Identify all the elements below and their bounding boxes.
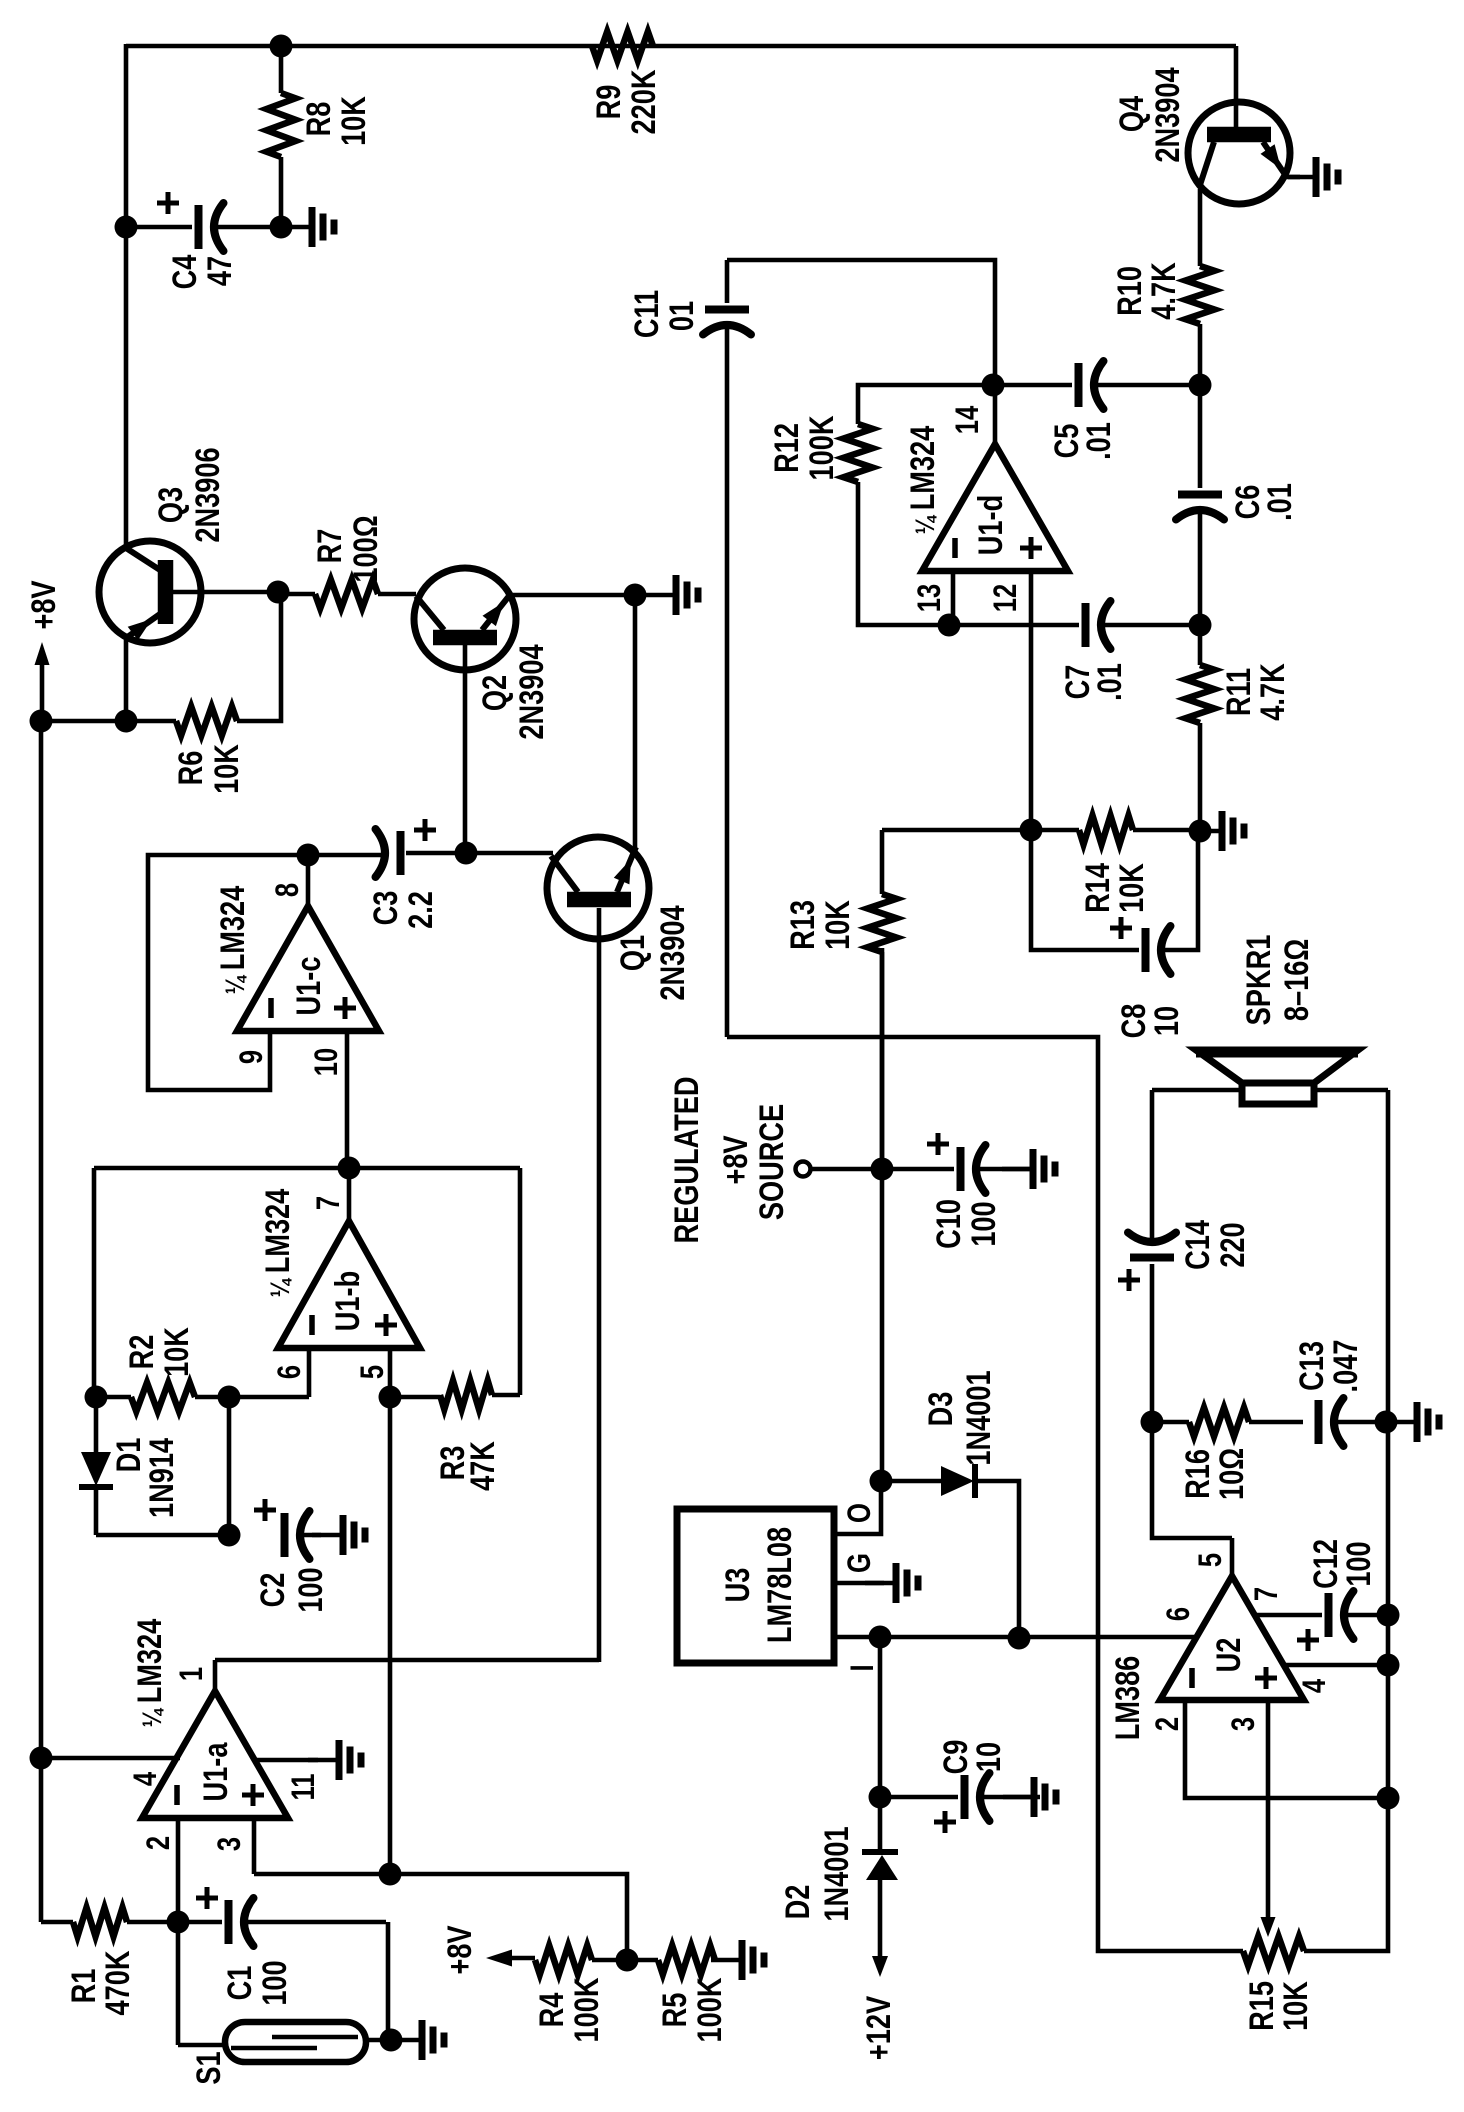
junction +8V emitter node	[115, 710, 138, 733]
plus sign C3	[414, 828, 436, 833]
wire R7 right lead to Q2	[378, 592, 416, 597]
wire Q2 emitter to ground junction	[509, 593, 635, 598]
junction pin 2 rail node	[1377, 1787, 1400, 1810]
svg-text:3: 3	[212, 1837, 247, 1851]
svg-text:Q2: Q2	[475, 675, 514, 711]
capacitor C9	[880, 1795, 958, 1800]
plus sign C9	[934, 1820, 956, 1825]
junction pin 13 node	[938, 614, 961, 637]
svg-text:Q3: Q3	[151, 487, 190, 523]
pin 11 stub and ground	[255, 1758, 318, 1763]
junction C2 node	[218, 1524, 241, 1547]
junction Q3 base node	[267, 581, 290, 604]
op-amp U2 LM386	[1160, 1576, 1304, 1700]
wire U1-b output rail	[94, 1166, 520, 1171]
svg-text:2N3904: 2N3904	[512, 644, 551, 739]
ground after R5	[711, 1958, 741, 1963]
wire O node up the +8V regulated rail	[880, 948, 885, 1481]
pin 4 stub U2	[1284, 1663, 1388, 1668]
junction C12 rail node	[1377, 1604, 1400, 1627]
ground at C13	[1386, 1420, 1416, 1425]
svg-text:4: 4	[1297, 1679, 1332, 1693]
svg-text:D2: D2	[778, 1885, 817, 1920]
wire D1 bottom to C2 node	[96, 1533, 229, 1538]
svg-text:+12V: +12V	[859, 1995, 898, 2060]
svg-text:7: 7	[1249, 1587, 1284, 1601]
svg-text:R8: R8	[299, 102, 338, 137]
svg-text:8–16Ω: 8–16Ω	[1277, 939, 1316, 1021]
plus sign C4	[157, 201, 179, 206]
junction R2 left node	[85, 1386, 108, 1409]
plus sign C10	[927, 1142, 949, 1147]
svg-text:10: 10	[1147, 1006, 1186, 1036]
svg-text:10K: 10K	[818, 900, 857, 950]
wire R2 leads	[96, 1395, 131, 1400]
svg-text:100Ω: 100Ω	[346, 515, 385, 582]
resistor R13	[880, 830, 885, 894]
wire C3 left to U1-c output	[308, 853, 382, 858]
svg-text:C3: C3	[366, 891, 405, 926]
op-amp U1-d quarter LM324	[922, 444, 1068, 571]
resistor R4	[535, 1946, 592, 1975]
junction C5 R10 node	[1189, 374, 1212, 397]
ground at R14 node	[1191, 829, 1221, 834]
svg-text:Q1: Q1	[613, 935, 652, 971]
svg-text:LM386: LM386	[1108, 1656, 1147, 1741]
wire U1-a output to Q1 base drop	[215, 1658, 599, 1663]
junction U1-b output node	[338, 1157, 361, 1180]
svg-text:R15: R15	[1242, 1981, 1281, 2031]
junction R2 right node	[218, 1386, 241, 1409]
resistor R1	[73, 1908, 127, 1937]
svg-text:+8V: +8V	[440, 1925, 479, 1975]
plus sign C8	[1110, 926, 1132, 931]
resistor R10	[1198, 189, 1203, 266]
wire +8V vertical with arrow	[40, 664, 45, 721]
junction D2 C9 node	[869, 1786, 892, 1809]
transistor Q2 2N3904	[414, 568, 516, 670]
pin 3 stub	[252, 1818, 257, 1874]
svg-text:10K: 10K	[334, 96, 373, 146]
wire speaker left lead	[1152, 1088, 1242, 1093]
speaker SPKR1	[1196, 1050, 1358, 1083]
svg-text:2N3904: 2N3904	[653, 905, 692, 1000]
svg-text:R12: R12	[767, 423, 806, 473]
wire Q3 emitter down to +8V node	[124, 638, 129, 721]
wire input node down to D2 C9 node	[878, 1637, 883, 1797]
svg-text:2.2: 2.2	[401, 891, 440, 929]
wire Q4 emitter to ground	[1288, 175, 1300, 180]
svg-text:U1-b: U1-b	[328, 1271, 367, 1331]
svg-text:U2: U2	[1209, 1638, 1248, 1673]
wire C11 bottom rail to R15	[727, 1037, 1243, 1951]
svg-text:C11: C11	[627, 290, 666, 338]
svg-text:100K: 100K	[690, 1978, 729, 2043]
svg-text:10K: 10K	[207, 744, 246, 794]
wire C11 top to pin14 node	[727, 260, 995, 385]
svg-text:100: 100	[1339, 1541, 1378, 1586]
svg-text:R10: R10	[1110, 266, 1149, 316]
capacitor C2	[281, 1513, 289, 1557]
pin 2 stub U2	[1185, 1700, 1388, 1798]
pin 3 stub U2 wiper arrow	[1266, 1700, 1271, 1917]
junction Q2 emitter node	[624, 584, 647, 607]
junction S1 ground node	[380, 2029, 403, 2052]
svg-text:R14: R14	[1078, 863, 1117, 913]
svg-text:10: 10	[309, 1048, 344, 1076]
junction R4 R5 node	[616, 1949, 639, 1972]
svg-text:O: O	[842, 1503, 877, 1523]
ground at C2	[312, 1533, 342, 1538]
wire Q1 base down to U1-a output wire	[597, 908, 602, 1662]
pin 13 stub	[951, 571, 956, 625]
wire Q1 collector to Q2 base node	[466, 851, 553, 856]
junction C13 ground rail node	[1375, 1411, 1398, 1434]
junction pin 4 node on +8V rail	[30, 1747, 53, 1770]
pin 7 stub U2	[1254, 1613, 1322, 1618]
wire Q2 emitter node down to Q1 emitter	[633, 595, 638, 849]
pin 5 stub	[388, 1348, 393, 1397]
svg-text:U1-a: U1-a	[196, 1742, 235, 1802]
capacitor C7	[1082, 603, 1090, 647]
junction +8V rail node	[30, 710, 53, 733]
svg-text:1: 1	[174, 1667, 209, 1681]
resistor R8	[267, 93, 296, 157]
svg-text:R2: R2	[122, 1335, 161, 1370]
svg-text:LM78L08: LM78L08	[760, 1527, 799, 1643]
pin 14 stub	[993, 385, 998, 444]
ground at Q4 emitter	[1285, 175, 1315, 180]
svg-text:R1: R1	[64, 1969, 103, 2004]
svg-text:7: 7	[311, 1196, 346, 1210]
junction D3 anode node	[870, 1470, 893, 1493]
op-amp U1-a quarter LM324	[142, 1691, 288, 1818]
svg-text:14: 14	[950, 406, 985, 434]
svg-text:220: 220	[1213, 1222, 1252, 1267]
capacitor C4	[126, 225, 192, 230]
svg-text:13: 13	[912, 584, 947, 612]
wire R6 right to Q3 base junction	[237, 592, 281, 721]
svg-text:10Ω: 10Ω	[1212, 1448, 1251, 1500]
svg-text:Q4: Q4	[1112, 96, 1151, 132]
svg-text:2N3904: 2N3904	[1148, 67, 1187, 162]
svg-text:R13: R13	[783, 900, 822, 950]
plus sign C2	[254, 1508, 276, 1513]
svg-text:.047: .047	[1326, 1340, 1365, 1393]
svg-text:6: 6	[1161, 1607, 1196, 1621]
wire R7 left lead	[278, 592, 315, 597]
svg-text:R9: R9	[589, 85, 628, 120]
terminal regulated 8V source	[796, 1162, 811, 1177]
svg-text:U3: U3	[718, 1568, 757, 1603]
wire pin 3 rail to R4 node	[254, 1874, 627, 1960]
resistor R11	[1198, 625, 1203, 665]
svg-text:2: 2	[1150, 1717, 1185, 1731]
svg-text:01: 01	[662, 301, 701, 331]
transistor Q4 2N3904	[1188, 102, 1290, 204]
svg-text:U1-c: U1-c	[289, 957, 328, 1016]
svg-text:C13: C13	[1292, 1341, 1331, 1391]
wire R3 right leg down	[518, 1168, 523, 1395]
svg-text:G: G	[842, 1553, 877, 1573]
plus sign C14	[1118, 1278, 1140, 1283]
svg-text:R11: R11	[1219, 668, 1258, 716]
resistor R6	[176, 707, 237, 736]
op-amp U1-c quarter LM324	[237, 906, 379, 1031]
op-amp U1-b quarter LM324	[278, 1221, 420, 1348]
junction U3 input node	[869, 1626, 892, 1649]
pin 12 stub	[1029, 571, 1034, 830]
resistor R9	[592, 32, 653, 61]
resistor R2	[131, 1383, 195, 1412]
potentiometer R15	[1243, 1937, 1304, 1966]
svg-text:4.7K: 4.7K	[1253, 663, 1292, 720]
svg-text:.01: .01	[1260, 483, 1299, 521]
svg-text:9: 9	[234, 1050, 269, 1064]
wire U1-c feedback loop	[148, 855, 308, 1090]
capacitor C3	[397, 831, 405, 875]
capacitor C10	[882, 1167, 954, 1172]
junction pin 5 node	[379, 1386, 402, 1409]
wire right rail speaker to R15	[1304, 1090, 1388, 1951]
wire top rail corner down to Q4 base	[1234, 46, 1239, 128]
svg-text:4.7K: 4.7K	[1144, 262, 1183, 319]
wire +8V rail horizontal	[41, 719, 126, 724]
svg-text:6: 6	[272, 1365, 307, 1379]
resistor R16	[1189, 1408, 1249, 1437]
svg-text:1N4001: 1N4001	[959, 1370, 998, 1465]
junction U1-d output node	[982, 374, 1005, 397]
svg-text:100K: 100K	[567, 1978, 606, 2043]
pin O stub	[834, 1481, 881, 1534]
junction pin 4 rail node	[1377, 1654, 1400, 1677]
wire R16 left lead	[1152, 1420, 1189, 1425]
svg-text:+8V: +8V	[716, 1135, 755, 1185]
wire U3 input rail to U2 pin6	[880, 1635, 1196, 1640]
svg-text:+8V: +8V	[24, 580, 63, 630]
resistor R3	[440, 1381, 492, 1410]
wire +8V long rail down left edge	[39, 721, 44, 1922]
junction D3 cathode to input rail	[1008, 1627, 1031, 1650]
regulator U3 LM78L08	[677, 1509, 834, 1663]
svg-text:47: 47	[200, 256, 239, 286]
junction Q2 base C3 node	[455, 842, 478, 865]
svg-text:10K: 10K	[1112, 863, 1151, 913]
wire speaker right lead	[1314, 1088, 1388, 1093]
junction C4 right	[270, 216, 293, 239]
ground at C10	[1002, 1167, 1032, 1172]
pin 2 stub	[176, 1818, 181, 1922]
wire pin5 node right to R3	[390, 1395, 440, 1400]
ground at C4	[281, 225, 311, 230]
wire Q3 base to junction	[172, 590, 278, 595]
svg-text:R4: R4	[532, 1993, 571, 2028]
svg-text:R7: R7	[310, 529, 349, 564]
diode D2 1N4001	[878, 1797, 883, 1852]
pin 1 output stub	[213, 1660, 218, 1691]
capacitor C5	[993, 383, 1072, 388]
svg-text:D3: D3	[921, 1392, 960, 1427]
wire R1 right to pin2 node	[127, 1920, 178, 1925]
resistor R7	[315, 580, 378, 609]
svg-text:2N3906: 2N3906	[188, 447, 227, 542]
junction C4 left on rail	[115, 216, 138, 239]
pin I stub	[834, 1635, 880, 1640]
capacitor C14	[1130, 1254, 1174, 1262]
svg-text:5: 5	[1193, 1553, 1228, 1567]
svg-text:C10: C10	[929, 1199, 968, 1249]
ground at Q2 emitter	[645, 593, 675, 598]
switch S1 sensor pill	[225, 2022, 366, 2062]
plus sign C12	[1297, 1638, 1319, 1643]
svg-text:10: 10	[969, 1742, 1008, 1772]
ground at S1	[391, 2038, 421, 2043]
junction R14 ground node	[1189, 820, 1212, 843]
svg-text:SPKR1: SPKR1	[1239, 935, 1278, 1026]
svg-text:220K: 220K	[624, 70, 663, 135]
svg-text:.01: .01	[1079, 422, 1118, 460]
wire R2right node down to C2 node	[227, 1397, 232, 1535]
junction C7 rail node	[1189, 614, 1212, 637]
svg-text:5: 5	[355, 1365, 390, 1379]
wire speaker left down to C14	[1150, 1090, 1155, 1238]
pin 5 stub U2 output	[1230, 1538, 1235, 1576]
wire top rail from corner to Q4 base corner	[126, 44, 1236, 49]
pin G stub and ground	[834, 1581, 884, 1586]
wire left rail down to Q3	[124, 44, 129, 545]
capacitor C11	[725, 260, 730, 303]
wire C1 right down to S1 ground node	[386, 1922, 391, 2040]
transistor Q1 2N3904	[547, 837, 649, 939]
svg-text:REGULATED: REGULATED	[667, 1076, 706, 1243]
svg-text:S1: S1	[189, 2051, 228, 2084]
svg-text:100K: 100K	[802, 416, 841, 481]
svg-text:4: 4	[128, 1772, 163, 1786]
junction R1 C1 pin2 node	[167, 1911, 190, 1934]
svg-text:100: 100	[255, 1960, 294, 2005]
transistor Q3 2N3906	[99, 541, 201, 643]
svg-text:470K: 470K	[98, 1951, 137, 2016]
junction C14 R16 pin5 node	[1141, 1411, 1164, 1434]
svg-text:100: 100	[291, 1567, 330, 1612]
pin 10 stub	[345, 1031, 350, 1168]
svg-text:I: I	[845, 1664, 880, 1671]
svg-text:R6: R6	[171, 751, 210, 786]
wire R2 right to pin 6	[229, 1395, 309, 1400]
svg-text:2: 2	[141, 1836, 176, 1850]
svg-text:SOURCE: SOURCE	[752, 1104, 791, 1220]
wire R3 right lead	[492, 1393, 520, 1398]
svg-text:47K: 47K	[463, 1441, 502, 1491]
junction pin3 and U1-b pin5 drop	[379, 1863, 402, 1886]
wire S1 left up to pin2 node	[176, 1922, 181, 2045]
pin 8 stub U1-c output	[306, 855, 311, 906]
svg-text:C4: C4	[165, 255, 204, 290]
resistor R12 feedback	[858, 385, 995, 424]
plus sign C1	[196, 1896, 218, 1901]
wire +8V rail corner to R1	[41, 1920, 73, 1925]
svg-text:12: 12	[988, 584, 1023, 612]
svg-text:1N914: 1N914	[142, 1438, 181, 1518]
pin 6 stub	[307, 1348, 312, 1397]
svg-text:1N4001: 1N4001	[817, 1826, 856, 1921]
junction U1-c output node	[297, 844, 320, 867]
resistor R14	[1079, 816, 1133, 845]
svg-text:R16: R16	[1178, 1449, 1217, 1499]
wire +8V arrow to R4	[505, 1956, 535, 1961]
svg-text:C14: C14	[1178, 1220, 1217, 1270]
wire R4 to junction	[592, 1958, 658, 1963]
wire Q2 base down	[463, 645, 468, 853]
capacitor C6 on rail	[1198, 385, 1203, 488]
diode D1 1N914	[94, 1397, 99, 1452]
svg-text:3: 3	[1226, 1717, 1261, 1731]
wire pin12 node to R13 R14 rail	[882, 828, 1079, 833]
pin 4 supply wire	[41, 1756, 180, 1761]
wire pin5 node long drop to U1-a pin3	[388, 1397, 393, 1874]
svg-text:C1: C1	[220, 1966, 259, 2001]
svg-text:11: 11	[286, 1773, 321, 1800]
junction pin12 drop node	[1020, 819, 1043, 842]
svg-text:8: 8	[270, 883, 305, 897]
wire pin5 riser	[1152, 1422, 1232, 1538]
ground at C9	[1003, 1795, 1033, 1800]
capacitor C8	[1031, 830, 1139, 950]
wire pin13 node to C7	[949, 623, 1079, 628]
wire feedback left leg down	[92, 1168, 97, 1397]
svg-text:.01: .01	[1090, 663, 1129, 701]
capacitor C12	[1325, 1593, 1333, 1637]
diode D3 1N4001	[881, 1479, 941, 1484]
svg-text:U1-d: U1-d	[971, 495, 1010, 555]
junction regulated node	[871, 1158, 894, 1181]
svg-text:10K: 10K	[1276, 1981, 1315, 2031]
capacitor C1	[178, 1920, 222, 1925]
svg-text:10K: 10K	[157, 1327, 196, 1377]
svg-text:R5: R5	[655, 1993, 694, 2028]
capacitor C13	[1315, 1400, 1323, 1444]
svg-text:100: 100	[964, 1201, 1003, 1246]
junction node R8 top	[270, 35, 293, 58]
svg-text:C2: C2	[253, 1573, 292, 1608]
pin 7 stub U1-b output	[347, 1168, 352, 1221]
wire R8 to C4 node	[279, 46, 284, 93]
wire R6 left lead	[126, 719, 176, 724]
resistor R5	[658, 1946, 715, 1975]
